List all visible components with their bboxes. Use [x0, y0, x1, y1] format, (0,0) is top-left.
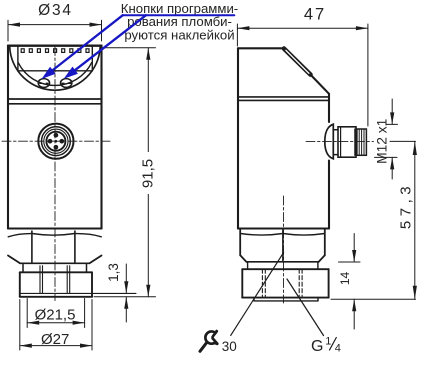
svg-text:57,3: 57,3: [397, 182, 414, 229]
front vertical centerline: [54, 47, 56, 301]
dim Ø34 line: [8, 24, 102, 26]
dim Ø27 line: [20, 345, 92, 347]
svg-text:14: 14: [338, 272, 352, 286]
display window bottom chord: [18, 70, 92, 72]
blue underline: [122, 14, 234, 16]
display window right edge: [91, 47, 93, 71]
svg-text:4: 4: [335, 343, 341, 355]
dim 14 line: [353, 234, 355, 330]
side display bezel strip: [284, 49, 311, 75]
G1/4 leader line: [287, 279, 324, 336]
front band line lower: [8, 103, 102, 105]
front hex bottom line: [20, 262, 90, 264]
blue leader arrow to left button: [42, 15, 123, 79]
svg-text:Ø34: Ø34: [38, 2, 73, 19]
dim 14 extension line: [339, 261, 361, 263]
dim Ø27 extension lines: [20, 300, 92, 351]
front thread bore lines: [40, 266, 70, 293]
G1/4 text: [311, 336, 341, 356]
dim 1,3 arrows: [124, 281, 128, 309]
front body bottom line: [8, 227, 102, 229]
svg-text:30: 30: [222, 339, 237, 354]
dim 91,5 extension lines: [94, 48, 156, 297]
side hex: [240, 229, 325, 262]
dim 57,3 line: [414, 141, 416, 299]
svg-text:91,5: 91,5: [140, 159, 157, 188]
front hex lower slants: [8, 256, 102, 264]
svg-text:Ø27: Ø27: [41, 331, 69, 348]
side M12 connector flange: [325, 124, 334, 159]
side connector centerline: [306, 140, 374, 142]
dim 47 extension lines: [237, 24, 368, 126]
dim M12x1 arrows: [390, 112, 394, 169]
dim Ø21,5 extension lines: [27, 299, 84, 328]
side connector nut: [338, 127, 356, 157]
dim Ø21,5 line: [27, 322, 84, 324]
side neck edges: [248, 262, 318, 269]
front hex flats: [32, 231, 75, 263]
dim M12x1 line: [391, 99, 393, 179]
side hex bottom line: [246, 261, 318, 263]
dim Ø34 extension lines: [8, 20, 102, 41]
dim Ø21,5 arrows: [27, 321, 84, 325]
side collar outline: [242, 269, 328, 297]
dim 14 arrows: [352, 250, 356, 311]
side hidden thread lines: [262, 269, 302, 296]
front view head outline: [8, 46, 102, 229]
front neck edges: [23, 263, 87, 272]
dim 91,5 text: [141, 152, 157, 194]
front collar chamfer line: [20, 292, 136, 294]
dim 91,5 arrows: [146, 48, 150, 297]
side band line upper: [238, 96, 329, 98]
side collar lip: [254, 298, 318, 301]
front hex chamfer arcs: [8, 234, 101, 237]
centerline extension to 57,3: [390, 140, 416, 142]
front head display inner arc: [18, 63, 92, 86]
side vertical centerline: [283, 196, 285, 303]
dim 57,3 arrows: [413, 141, 417, 299]
dim 47 arrows: [237, 26, 368, 30]
front collar outline: [20, 272, 92, 297]
svg-text:1: 1: [325, 336, 331, 348]
side connector neck: [333, 130, 338, 155]
dim 91,5 line: [147, 48, 149, 297]
svg-text:G: G: [311, 338, 323, 355]
display window left edge: [17, 47, 19, 71]
button left: [38, 79, 49, 88]
side view outline: [238, 48, 329, 228]
wrench icon: [200, 331, 217, 351]
side body bottom line: [238, 227, 329, 229]
svg-text:47: 47: [304, 6, 326, 24]
connector pins: [48, 133, 65, 150]
front band line upper: [8, 98, 102, 100]
side hex chamfer arcs: [240, 234, 325, 236]
M12 connector face circles: [38, 124, 73, 159]
svg-text:M12 x1: M12 x1: [375, 119, 390, 164]
dim Ø34 arrows: [8, 23, 102, 27]
svg-text:Ø21,5: Ø21,5: [35, 307, 76, 324]
blue leader arrow to right button: [64, 15, 146, 79]
dim Ø27 arrows: [20, 344, 92, 348]
svg-text:1,3: 1,3: [106, 263, 121, 282]
side connector thread: [357, 129, 367, 155]
front head display outer arc: [10, 47, 101, 90]
display segment ticks: [21, 49, 89, 53]
button right: [60, 79, 71, 88]
dim 47 line: [237, 27, 368, 29]
side band line lower: [238, 99, 329, 101]
dim M12x1 extension lines: [375, 124, 398, 157]
bottom extension line for 57,3 and 14: [331, 298, 416, 300]
dim 1,3 line: [125, 264, 127, 322]
svg-text:руются наклейкой: руются наклейкой: [124, 28, 234, 43]
front horizontal centerline: [2, 140, 110, 142]
wrench size leader line: [231, 253, 284, 336]
